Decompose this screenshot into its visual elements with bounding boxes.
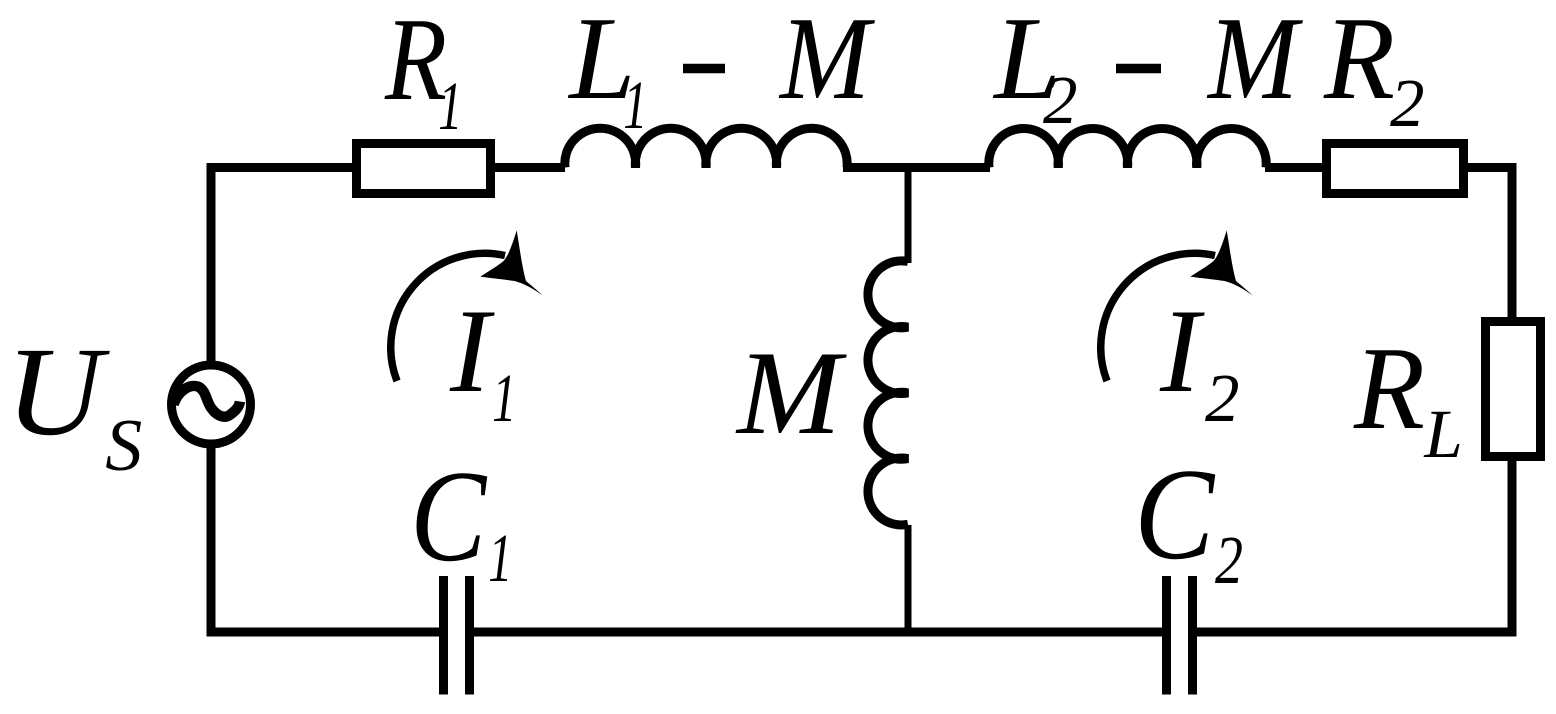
svg-text:2: 2: [1205, 360, 1240, 436]
svg-text:C: C: [410, 444, 487, 589]
svg-text:1: 1: [623, 67, 647, 143]
svg-text:M: M: [1206, 0, 1303, 124]
svg-text:1: 1: [488, 520, 512, 596]
svg-text:R: R: [1353, 322, 1425, 454]
svg-text:2: 2: [1215, 522, 1243, 598]
svg-text:M: M: [778, 0, 875, 124]
svg-text:R: R: [1323, 0, 1395, 124]
svg-text:2: 2: [1043, 62, 1078, 138]
svg-text:I: I: [449, 284, 495, 417]
svg-text:S: S: [105, 405, 142, 487]
svg-text:U: U: [6, 322, 111, 462]
svg-text:L: L: [1423, 396, 1462, 472]
svg-text:C: C: [1134, 442, 1215, 587]
svg-text:I: I: [1159, 284, 1205, 417]
svg-text:1: 1: [492, 360, 516, 436]
svg-text:M: M: [735, 326, 847, 459]
svg-text:1: 1: [438, 68, 462, 144]
svg-text:2: 2: [1390, 65, 1425, 141]
